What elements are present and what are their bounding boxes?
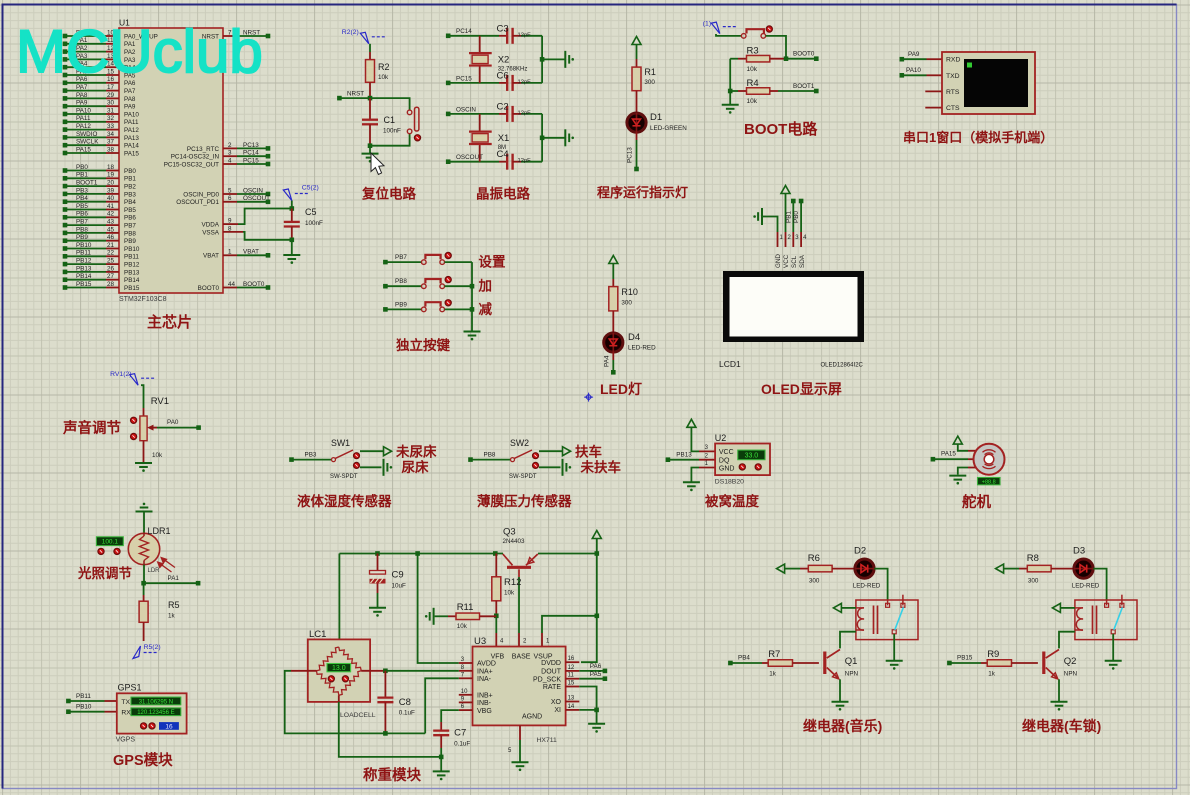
junction C8 top: [383, 669, 388, 674]
svg-text:AGND: AGND: [522, 714, 542, 721]
svg-text:PB11: PB11: [76, 693, 91, 700]
svg-text:VBG: VBG: [477, 708, 492, 715]
wire net PA8 to U1: [63, 92, 136, 103]
ground under C9: [369, 608, 386, 612]
svg-text:设置: 设置: [479, 255, 506, 270]
svg-text:R1: R1: [644, 67, 656, 77]
svg-text:PB1: PB1: [76, 172, 88, 179]
svg-text:VBAT: VBAT: [243, 249, 259, 256]
svg-text:PB2: PB2: [124, 184, 136, 191]
wire Q3 base to U3 BASE: [518, 577, 520, 633]
svg-text:300: 300: [809, 578, 820, 585]
svg-text:300: 300: [621, 300, 632, 307]
svg-text:10k: 10k: [378, 74, 389, 81]
svg-text:12pF: 12pF: [518, 32, 532, 38]
pot wiper wire to PA0: [147, 419, 201, 431]
svg-text:29: 29: [107, 92, 115, 99]
wire button ground rail: [471, 262, 473, 331]
LDR buttons: [98, 548, 120, 554]
wire net PB11 to U1: [63, 250, 140, 261]
svg-text:SDA: SDA: [799, 254, 806, 268]
wire coil bottom to Q2 collector: [1059, 632, 1075, 649]
wire C2 to rail: [521, 113, 542, 115]
junction R12 R11 VFB: [494, 614, 499, 619]
svg-text:CTS: CTS: [946, 105, 960, 112]
wire net PB0 to U1: [63, 164, 137, 175]
svg-text:SCL: SCL: [791, 255, 798, 268]
resistor R12 10k: [492, 551, 522, 616]
svg-text:26: 26: [107, 265, 115, 272]
svg-text:LED-GREEN: LED-GREEN: [650, 125, 687, 132]
svg-text:C1: C1: [384, 115, 396, 125]
svg-text:42: 42: [107, 211, 115, 218]
svg-text:PB7: PB7: [76, 219, 88, 226]
svg-text:PA7: PA7: [124, 88, 136, 95]
svg-text:PB13: PB13: [76, 265, 92, 272]
svg-text:300: 300: [1028, 578, 1039, 585]
U1 pin VBAT (1): [203, 249, 270, 260]
wire net PB5 to U1: [63, 203, 137, 214]
svg-text:LED-RED: LED-RED: [853, 583, 881, 590]
svg-text:未扶车: 未扶车: [581, 459, 622, 475]
svg-text:1: 1: [228, 249, 232, 256]
svg-text:2N4403: 2N4403: [503, 538, 526, 545]
svg-text:PA15: PA15: [941, 451, 956, 458]
wire net PA5 to U1: [63, 68, 136, 79]
U1 pin BOOT0 (44): [198, 281, 271, 292]
svg-text:25: 25: [107, 258, 115, 265]
svg-text:4: 4: [228, 157, 232, 164]
svg-text:LOADCELL: LOADCELL: [340, 712, 376, 719]
svg-text:程序运行指示灯: 程序运行指示灯: [597, 185, 688, 200]
svg-text:10uF: 10uF: [392, 583, 407, 590]
OLED pin SDA wire to PB0: [793, 199, 807, 268]
U2 pin DQ (2): [699, 453, 715, 459]
resistor R4 10k: [728, 78, 778, 105]
svg-text:10k: 10k: [504, 590, 515, 597]
U1 pin OSCIN (5): [183, 187, 270, 198]
svg-text:PA11: PA11: [76, 115, 91, 122]
svg-text:复位电路: 复位电路: [361, 186, 416, 202]
wire rail to AVDD: [418, 554, 459, 664]
node PC14: [446, 28, 472, 38]
resistor R11 10k: [435, 602, 497, 630]
svg-text:OSCOUT: OSCOUT: [243, 195, 270, 202]
OLED pin GND wire to ground: [753, 208, 783, 268]
U1 pin OSCOUT (6): [176, 195, 270, 206]
svg-text:TXD: TXD: [946, 73, 960, 80]
wire net PB8 to U1: [63, 226, 137, 237]
transistor Q3 2N4403 PNP: [503, 527, 538, 578]
reset push button: [407, 107, 419, 134]
svg-text:PA10: PA10: [124, 111, 139, 118]
svg-text:继电器(车锁): 继电器(车锁): [1022, 718, 1101, 734]
wire PA10 to TXD: [900, 67, 943, 78]
blue label C5(2): [283, 185, 319, 209]
svg-text:PB14: PB14: [124, 277, 140, 284]
svg-text:VCC: VCC: [783, 254, 790, 268]
rotated ground X1: [565, 129, 569, 146]
wire R4 to BOOT1 node: [778, 83, 819, 93]
junction power rail top: [595, 551, 600, 556]
LED D2 LED-RED: [853, 546, 881, 590]
push button 加: [422, 279, 445, 289]
svg-text:串口1窗口（模拟手机端）: 串口1窗口（模拟手机端）: [903, 130, 1053, 145]
svg-text:NRST: NRST: [347, 90, 364, 97]
svg-text:10k: 10k: [152, 452, 163, 459]
svg-text:31.106295 N: 31.106295 N: [139, 699, 173, 705]
wire PA9 to RXD: [900, 51, 943, 62]
wire PB8 to SW2: [468, 451, 510, 462]
node NRST junction: [337, 90, 372, 100]
svg-text:D3: D3: [1073, 546, 1085, 557]
wire C3 to rail: [521, 35, 542, 37]
svg-text:PA15: PA15: [76, 146, 91, 153]
svg-text:D4: D4: [628, 332, 640, 343]
wire net PA6 to U1: [63, 76, 136, 87]
wire net PB9 to U1: [63, 234, 137, 245]
svg-text:1k: 1k: [988, 671, 996, 678]
wire PB8 to button: [383, 278, 421, 288]
svg-text:SW-SPDT: SW-SPDT: [509, 474, 537, 480]
svg-text:C5(2): C5(2): [302, 185, 319, 192]
power arrow above U2: [687, 419, 699, 451]
svg-text:NPN: NPN: [1064, 670, 1078, 677]
node OSCIN: [446, 106, 476, 116]
ground under RATE/XI: [588, 724, 605, 728]
pot buttons: [131, 417, 137, 439]
wire coil bottom to Q1 collector: [840, 632, 856, 649]
svg-text:U2: U2: [715, 433, 727, 443]
svg-text:PB8: PB8: [395, 278, 407, 285]
svg-text:PB4: PB4: [738, 655, 750, 662]
ground under Q1 emitter: [832, 679, 849, 710]
svg-text:3: 3: [228, 150, 232, 157]
svg-text:SW2: SW2: [510, 438, 529, 448]
svg-text:PA9: PA9: [76, 100, 88, 107]
svg-text:PB8: PB8: [124, 230, 136, 237]
node under C1: [368, 134, 410, 148]
LC1 buttons: [328, 676, 348, 682]
svg-text:晶振电路: 晶振电路: [476, 186, 530, 202]
svg-text:PC13: PC13: [627, 147, 634, 163]
svg-text:PB4: PB4: [76, 195, 88, 202]
LC1 display: [327, 664, 351, 672]
wire PB13 to U2 DQ: [666, 452, 699, 462]
svg-text:BOOT0: BOOT0: [243, 281, 265, 288]
resistor R5 1k: [139, 583, 179, 641]
svg-text:9: 9: [228, 218, 232, 225]
svg-text:PB0: PB0: [124, 168, 136, 175]
svg-text:PA6: PA6: [590, 663, 602, 670]
svg-text:STM32F103C8: STM32F103C8: [119, 296, 167, 303]
wire net PA2 to U1: [63, 45, 136, 56]
svg-text:BOOT1: BOOT1: [76, 180, 98, 187]
LC1 left lead: [285, 671, 426, 734]
wire rail right of X1: [541, 114, 543, 162]
switch SW1 SW-SPDT: [330, 438, 358, 480]
LDR1 photoresistor: [128, 526, 170, 574]
wire net PA4 to U1: [63, 61, 136, 72]
wire net PB1 to U1: [63, 172, 137, 183]
svg-text:PA9: PA9: [124, 104, 136, 111]
power arrow left of R8: [996, 564, 1019, 573]
push button 设置: [422, 255, 445, 265]
svg-text:PC14-OSC32_IN: PC14-OSC32_IN: [171, 154, 220, 161]
wire net PB14 to U1: [63, 273, 140, 284]
svg-text:RTS: RTS: [946, 89, 960, 96]
LC1 top lead: [338, 639, 340, 647]
svg-text:39: 39: [107, 187, 115, 194]
svg-text:12pF: 12pF: [518, 79, 532, 85]
svg-text:PB0: PB0: [793, 211, 800, 223]
svg-text:C8: C8: [399, 697, 411, 708]
wire button to BOOT0: [766, 36, 786, 59]
wire button PB9 to rail: [445, 308, 473, 310]
svg-text:PA11: PA11: [124, 119, 139, 126]
svg-text:46: 46: [107, 234, 115, 241]
potentiometer RV1 10k: [140, 385, 169, 463]
LC1 bridge resistors: [317, 647, 362, 695]
U1 pin VSSA (8) wire to C5: [202, 225, 292, 240]
blue label R2(2): [342, 29, 386, 44]
relay 继电器(车锁): [1075, 595, 1137, 640]
resistor R3 10k: [730, 46, 786, 73]
U3 pin VSUP (1): [542, 633, 550, 647]
LED D3 LED-RED: [1072, 546, 1100, 590]
wire net PB10 to U1: [63, 242, 140, 253]
svg-text:GND: GND: [775, 254, 782, 268]
svg-text:11: 11: [568, 673, 575, 679]
svg-text:PB4: PB4: [124, 199, 136, 206]
svg-text:PB5: PB5: [76, 203, 88, 210]
svg-text:D2: D2: [854, 546, 866, 557]
svg-text:PB15: PB15: [957, 655, 973, 662]
svg-text:PB11: PB11: [76, 250, 91, 257]
resistor R6 300: [800, 553, 855, 585]
capacitor C9 10uF polarized: [370, 554, 407, 608]
svg-text:41: 41: [107, 203, 115, 210]
GPS pin RX stub: [105, 711, 117, 713]
rotated ground left of R11: [430, 608, 434, 625]
svg-text:PB6: PB6: [124, 215, 136, 222]
wire net PA12 to U1: [63, 123, 140, 134]
ground under C5: [283, 240, 300, 264]
svg-text:R10: R10: [621, 287, 638, 297]
rotated ground X2: [565, 51, 569, 68]
blue origin marker: [584, 393, 593, 402]
power arrow left of R6: [777, 564, 800, 573]
HX711 chip U3: [473, 636, 566, 725]
relay 继电器(音乐): [856, 595, 918, 640]
svg-text:14: 14: [568, 704, 575, 710]
svg-text:PB15: PB15: [76, 281, 92, 288]
U2 pin GND (1) to ground: [683, 461, 715, 491]
svg-text:1k: 1k: [168, 613, 176, 620]
svg-text:12pF: 12pF: [518, 110, 532, 116]
svg-text:28: 28: [107, 281, 115, 288]
junction VSUP: [595, 614, 600, 619]
wire button PB7 to rail: [445, 261, 473, 263]
svg-text:PB3: PB3: [305, 451, 317, 458]
wire net PB7 to U1: [63, 219, 137, 230]
svg-text:PC14: PC14: [456, 28, 472, 35]
power arrow above R1: [632, 37, 641, 60]
U1 pin NRST (7): [202, 29, 270, 40]
svg-text:RXD: RXD: [946, 57, 960, 64]
svg-text:43: 43: [107, 219, 115, 226]
svg-text:MCUclub: MCUclub: [16, 18, 263, 85]
wire SW2 throw1 to power arrow: [539, 447, 571, 456]
svg-text:5: 5: [228, 187, 232, 194]
svg-text:PB0: PB0: [76, 164, 88, 171]
svg-text:(1): (1): [703, 21, 711, 28]
wire net PB13 to U1: [63, 265, 140, 276]
svg-text:R8: R8: [1027, 553, 1039, 564]
svg-text:BOOT1: BOOT1: [793, 83, 815, 90]
resistor R8 300: [1019, 553, 1074, 585]
svg-text:12: 12: [568, 665, 575, 671]
capacitor C1 100nF: [362, 98, 401, 146]
U3 pin BASE (2): [519, 633, 527, 647]
svg-text:R2: R2: [378, 62, 390, 72]
red toggle dot PB8: [445, 277, 451, 283]
capacitor C7 0.1uF: [433, 722, 470, 757]
resistor R9 1k: [981, 649, 1038, 678]
svg-text:VDDA: VDDA: [202, 222, 220, 229]
svg-text:32.768KHz: 32.768KHz: [498, 66, 528, 72]
svg-text:SWCLK: SWCLK: [76, 139, 99, 146]
svg-text:LED-RED: LED-RED: [1072, 583, 1100, 590]
power arrow weighing rail: [592, 531, 601, 554]
svg-text:VCC: VCC: [719, 449, 734, 456]
wire rail down to LC1: [338, 554, 340, 640]
svg-text:OSCOUT_PD1: OSCOUT_PD1: [176, 199, 219, 206]
svg-text:INA+: INA+: [477, 668, 493, 675]
svg-text:2: 2: [228, 142, 232, 149]
svg-text:X1: X1: [498, 133, 510, 144]
svg-text:DVDD: DVDD: [541, 660, 561, 667]
capacitor C2 12pF: [497, 101, 532, 122]
switch SW2 SW-SPDT: [509, 438, 537, 480]
wire C6 to rail: [521, 82, 542, 84]
node OSCOUT: [446, 154, 483, 164]
svg-text:17: 17: [107, 84, 115, 91]
wire net PA0 to U1: [63, 29, 158, 40]
servo motor symbol: [968, 444, 1005, 475]
svg-text:PA7: PA7: [76, 84, 88, 91]
svg-text:21: 21: [107, 242, 115, 249]
svg-text:R9: R9: [987, 649, 999, 660]
wire power to DVDD: [581, 616, 597, 662]
GPS pin TX stub: [105, 700, 117, 702]
U1 pin PC14 (3): [171, 150, 271, 161]
svg-text:PA12: PA12: [76, 123, 91, 130]
svg-text:被窝温度: 被窝温度: [705, 493, 759, 509]
svg-text:TX: TX: [121, 699, 130, 706]
svg-text:18: 18: [107, 164, 115, 171]
svg-text:PB12: PB12: [124, 262, 140, 269]
svg-text:PB13: PB13: [124, 269, 140, 276]
junction on rail X2: [540, 57, 545, 62]
svg-text:PB6: PB6: [76, 211, 88, 218]
svg-text:INA-: INA-: [477, 676, 492, 683]
svg-text:20: 20: [107, 180, 115, 187]
svg-text:33: 33: [107, 123, 115, 130]
svg-text:100nF: 100nF: [305, 220, 323, 227]
transistor Q2 NPN: [1044, 650, 1078, 679]
svg-text:LCD1: LCD1: [719, 359, 741, 369]
wire PC15 row: [448, 82, 499, 84]
svg-text:U3: U3: [474, 636, 486, 647]
boot push button: [716, 29, 766, 38]
svg-text:PB9: PB9: [124, 238, 136, 245]
transistor Q1 NPN: [825, 650, 859, 679]
svg-text:PB10: PB10: [76, 704, 92, 711]
svg-text:C2: C2: [497, 101, 509, 112]
svg-text:PB3: PB3: [124, 191, 136, 198]
ground under reset: [362, 146, 379, 163]
U3 pin VFB (4): [496, 633, 504, 647]
svg-text:34: 34: [107, 131, 115, 138]
power arrow above R10: [609, 256, 618, 280]
svg-text:PA8: PA8: [76, 92, 88, 99]
svg-text:LC1: LC1: [309, 629, 326, 640]
svg-text:薄膜压力传感器: 薄膜压力传感器: [477, 493, 572, 509]
svg-text:PB11: PB11: [124, 254, 139, 261]
svg-text:38: 38: [107, 146, 115, 153]
svg-text:10: 10: [461, 689, 468, 695]
svg-text:13.0: 13.0: [332, 665, 346, 672]
blue label (1) flag: [703, 21, 737, 34]
wire PC14 row: [448, 35, 499, 37]
svg-text:D1: D1: [650, 112, 662, 123]
svg-text:BOOT电路: BOOT电路: [744, 120, 818, 138]
svg-text:37: 37: [107, 139, 115, 146]
svg-text:PB1: PB1: [785, 211, 792, 223]
svg-text:GPS1: GPS1: [118, 683, 142, 693]
svg-text:PB10: PB10: [76, 242, 92, 249]
svg-text:PB1: PB1: [124, 176, 136, 183]
svg-text:DQ: DQ: [719, 457, 730, 464]
svg-text:30: 30: [107, 100, 115, 107]
svg-text:PA14: PA14: [124, 143, 139, 150]
svg-text:R2(2): R2(2): [342, 29, 359, 36]
svg-text:120.123456 E: 120.123456 E: [137, 710, 174, 716]
svg-text:OSCIN: OSCIN: [456, 106, 476, 113]
svg-text:100nF: 100nF: [383, 128, 401, 135]
pin CTS stub: [925, 107, 942, 109]
svg-text:减: 减: [479, 301, 493, 317]
svg-text:R6: R6: [808, 553, 820, 564]
wire net PA9 to U1: [63, 100, 136, 111]
svg-text:VSSA: VSSA: [202, 229, 220, 236]
wire button PB8 to rail: [445, 285, 473, 287]
svg-text:HX711: HX711: [537, 737, 557, 744]
svg-text:PB5: PB5: [124, 207, 136, 214]
wire net PA3 to U1: [63, 53, 136, 64]
svg-text:INB-: INB-: [477, 700, 492, 707]
wire SW2 throw2 to ground: [539, 459, 571, 476]
wire rail to ground X2: [542, 58, 565, 60]
ground under RV1: [135, 463, 152, 467]
junction rail AVDD branch: [415, 551, 420, 556]
push button 减: [422, 302, 445, 312]
svg-text:LDR1: LDR1: [148, 526, 171, 536]
mouse cursor: [371, 153, 384, 175]
red toggle dot PB9: [445, 300, 451, 306]
svg-text:PC13: PC13: [243, 142, 259, 149]
